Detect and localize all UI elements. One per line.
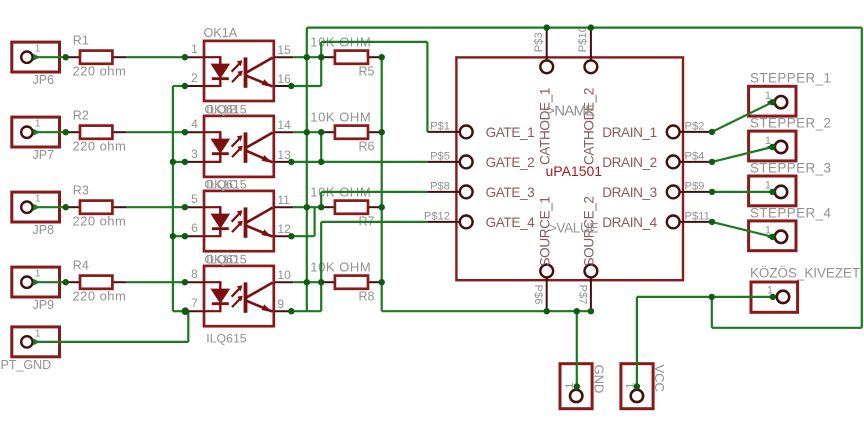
svg-text:9: 9 xyxy=(277,297,284,311)
svg-text:220 ohm: 220 ohm xyxy=(73,213,127,228)
svg-text:VCC: VCC xyxy=(652,365,667,392)
svg-text:1: 1 xyxy=(191,42,198,56)
svg-text:10K OHM: 10K OHM xyxy=(310,109,371,124)
label R7 xyxy=(359,214,375,228)
label NAME placeholder xyxy=(546,102,595,119)
label STEPPER_4 xyxy=(750,205,832,220)
wire JP6 to R1 xyxy=(33,56,65,58)
svg-text:6: 6 xyxy=(191,221,198,235)
connector PT_GND xyxy=(12,327,60,357)
resistor R1 xyxy=(66,51,127,64)
terminal GND xyxy=(560,364,592,409)
label OK1D overlapped with ILQ615 xyxy=(205,252,247,266)
label KOZOS_KIVEZET xyxy=(750,266,860,281)
svg-text:P$9: P$9 xyxy=(685,180,705,192)
pin numbers optocoupler C xyxy=(191,192,291,236)
svg-text:KÖZÖS_KIVEZET: KÖZÖS_KIVEZET xyxy=(750,266,860,281)
svg-text:R8: R8 xyxy=(359,289,375,303)
resistor R5 xyxy=(321,51,382,64)
pin CATHODE_1 (P$3) xyxy=(533,29,553,165)
label STEPPER_3 xyxy=(750,160,831,175)
label GND xyxy=(592,365,607,394)
pin CATHODE_2 (P$10) xyxy=(577,26,597,165)
wire gate 3 net to GATE_3 xyxy=(321,192,427,207)
svg-text:220 ohm: 220 ohm xyxy=(73,63,127,78)
svg-text:GATE_3: GATE_3 xyxy=(486,185,535,200)
svg-text:P$8: P$8 xyxy=(430,180,450,192)
resistor R6 xyxy=(321,126,382,139)
wire R1 to optocoupler LED anode pin xyxy=(126,56,184,58)
wire DRAIN_4 to STEPPER_4 xyxy=(712,222,772,237)
value 220 ohm R2 xyxy=(73,138,127,153)
svg-text:11: 11 xyxy=(277,193,290,207)
svg-text:DRAIN_1: DRAIN_1 xyxy=(602,125,657,140)
wire emitter 2 to GATE_2 xyxy=(291,132,427,162)
pin GATE_2 (P$5) xyxy=(427,150,534,170)
label JP9 xyxy=(33,298,55,312)
optocoupler OK1C xyxy=(185,191,293,251)
wire JP9 to R4 xyxy=(33,281,65,283)
label R1 xyxy=(73,33,89,47)
resistor R3 xyxy=(66,201,127,214)
wire JP7 to R2 xyxy=(33,131,65,133)
pin GATE_4 (P$12) xyxy=(424,210,535,230)
optocoupler OK1D xyxy=(185,266,293,326)
svg-text:STEPPER_2: STEPPER_2 xyxy=(750,116,831,131)
svg-text:JP7: JP7 xyxy=(33,148,55,162)
svg-text:1: 1 xyxy=(35,327,41,339)
label JP7 xyxy=(33,148,55,162)
wire VCC vertical rail to optocoupler collectors xyxy=(306,28,308,312)
svg-text:P$2: P$2 xyxy=(685,120,705,132)
pin DRAIN_3 (P$9) xyxy=(602,180,712,200)
resistor R2 xyxy=(66,126,127,139)
label OK1C overlapped with ILQ615 xyxy=(205,177,247,191)
wire collector row channel 2 xyxy=(293,131,321,133)
pin SOURCE_2 (P$7) xyxy=(576,196,597,310)
wire VCC top rail xyxy=(307,27,862,29)
svg-text:OK1A: OK1A xyxy=(204,26,238,40)
svg-text:GATE_4: GATE_4 xyxy=(486,215,536,230)
svg-text:P$6: P$6 xyxy=(532,285,544,305)
svg-text:R3: R3 xyxy=(73,183,89,197)
wire collector row channel 3 xyxy=(293,206,321,208)
label R2 xyxy=(73,108,89,122)
svg-text:>VALUE: >VALUE xyxy=(549,220,599,235)
wire VCC right edge xyxy=(861,28,863,328)
wire DRAIN_1 to STEPPER_1 xyxy=(712,102,772,132)
svg-text:3: 3 xyxy=(191,147,198,161)
svg-text:15: 15 xyxy=(277,43,291,57)
svg-text:STEPPER_1: STEPPER_1 xyxy=(750,71,831,86)
svg-text:CATHODE_2: CATHODE_2 xyxy=(581,88,596,165)
svg-text:JP6: JP6 xyxy=(33,73,55,87)
label VALUE placeholder xyxy=(549,220,599,235)
svg-text:1: 1 xyxy=(35,268,41,280)
wire emitter 4 up-link xyxy=(291,282,321,311)
wire emitter 1 up-link xyxy=(291,57,321,86)
label R4 xyxy=(73,258,89,272)
svg-text:P$12: P$12 xyxy=(424,210,450,222)
svg-text:ILQ615: ILQ615 xyxy=(206,102,246,116)
pin numbers optocoupler B xyxy=(191,117,291,162)
pin GATE_1 (P$1) xyxy=(427,120,534,140)
pin numbers optocoupler D xyxy=(191,267,291,311)
label STEPPER_1 xyxy=(750,71,831,86)
svg-text:GATE_2: GATE_2 xyxy=(486,155,535,170)
resistor R8 xyxy=(321,276,382,289)
svg-text:STEPPER_4: STEPPER_4 xyxy=(750,205,832,220)
label OK1A xyxy=(204,26,238,40)
connector STEPPER_2 xyxy=(749,131,796,161)
pin GATE_3 (P$8) xyxy=(427,180,534,200)
svg-text:P$7: P$7 xyxy=(576,285,588,305)
svg-text:PT_GND: PT_GND xyxy=(1,358,52,372)
wire PT_GND to cathode bus xyxy=(33,311,188,342)
svg-text:DRAIN_3: DRAIN_3 xyxy=(602,185,657,200)
svg-text:DRAIN_4: DRAIN_4 xyxy=(602,215,657,230)
wire collector row channel 1 xyxy=(293,56,321,58)
connector JP6 xyxy=(12,42,60,72)
wire collector row channel 4 xyxy=(293,281,321,283)
wire DRAIN_2 to STEPPER_2 xyxy=(712,147,772,162)
pin DRAIN_1 (P$2) xyxy=(602,120,712,140)
svg-text:R6: R6 xyxy=(359,139,375,153)
svg-text:1: 1 xyxy=(35,43,41,55)
svg-text:8: 8 xyxy=(191,267,198,281)
svg-text:R1: R1 xyxy=(73,33,89,47)
value uPA1501 xyxy=(546,163,603,179)
resistor R4 xyxy=(66,276,127,289)
pin numbers optocoupler A xyxy=(191,42,291,86)
svg-text:ILQ615: ILQ615 xyxy=(206,332,246,346)
svg-text:220 ohm: 220 ohm xyxy=(73,288,127,303)
value 220 ohm R1 xyxy=(73,63,127,78)
svg-text:ILQ615: ILQ615 xyxy=(206,252,246,266)
svg-text:R4: R4 xyxy=(73,258,89,272)
wire emitter 3 up-link xyxy=(291,207,314,236)
value 10K OHM R8 xyxy=(310,259,371,274)
svg-text:uPA1501: uPA1501 xyxy=(546,163,603,179)
svg-text:10: 10 xyxy=(277,268,291,282)
svg-text:5: 5 xyxy=(191,192,198,206)
label JP8 xyxy=(33,223,55,237)
value 220 ohm R3 xyxy=(73,213,127,228)
svg-text:GATE_1: GATE_1 xyxy=(486,125,535,140)
label R3 xyxy=(73,183,89,197)
svg-text:JP9: JP9 xyxy=(33,298,55,312)
resistor R7 xyxy=(321,201,382,214)
value ILQ615 xyxy=(206,332,246,346)
wire GND drop to GND terminal xyxy=(576,311,578,386)
wire DRAIN_3 to STEPPER_3 xyxy=(712,191,772,193)
svg-text:220 ohm: 220 ohm xyxy=(73,138,127,153)
svg-text:GND: GND xyxy=(592,365,607,394)
label R5 xyxy=(359,64,375,78)
connector STEPPER_1 xyxy=(749,86,796,116)
value 10K OHM R5 xyxy=(310,34,371,49)
svg-text:STEPPER_3: STEPPER_3 xyxy=(750,160,831,175)
connector JP8 xyxy=(12,192,60,222)
label R6 xyxy=(359,139,375,153)
svg-text:JP8: JP8 xyxy=(33,223,55,237)
svg-text:P$3: P$3 xyxy=(533,32,545,52)
svg-text:1: 1 xyxy=(35,118,41,130)
value 10K OHM R6 xyxy=(310,109,371,124)
connector STEPPER_3 xyxy=(749,176,796,206)
wire LED cathode bus xyxy=(173,86,188,311)
svg-text:10K OHM: 10K OHM xyxy=(310,259,371,274)
svg-text:P$1: P$1 xyxy=(430,120,450,132)
svg-text:P$5: P$5 xyxy=(430,150,450,162)
svg-text:4: 4 xyxy=(191,117,198,131)
connector KOZOS_KIVEZET xyxy=(751,282,798,312)
optocoupler OK1A xyxy=(185,41,293,101)
label OK1B overlapped with ILQ615 xyxy=(205,102,247,116)
connector JP9 xyxy=(12,267,60,297)
svg-text:P$4: P$4 xyxy=(685,150,705,162)
label JP6 xyxy=(33,73,55,87)
op-amp/FET-array U1 uPA1501 box xyxy=(456,57,683,280)
label R8 xyxy=(359,289,375,303)
svg-text:14: 14 xyxy=(277,118,291,132)
wire gate 1 net to GATE_1 xyxy=(321,42,427,132)
svg-text:R2: R2 xyxy=(73,108,89,122)
pin DRAIN_2 (P$4) xyxy=(602,150,712,170)
terminal VCC xyxy=(621,364,653,409)
connector JP7 xyxy=(12,117,60,147)
svg-text:1: 1 xyxy=(35,193,41,205)
connector STEPPER_4 xyxy=(749,221,796,251)
wire R3 to optocoupler LED anode pin xyxy=(126,206,184,208)
pin SOURCE_1 (P$6) xyxy=(532,196,553,310)
wire R2 to optocoupler LED anode pin xyxy=(126,131,184,133)
wire GND vertical rail right of resistors xyxy=(381,57,383,311)
label STEPPER_2 xyxy=(750,116,831,131)
wire VCC to KOZOS and VCC terminal xyxy=(637,297,773,387)
value 10K OHM R7 xyxy=(310,184,371,199)
svg-text:2: 2 xyxy=(191,71,198,85)
svg-text:R5: R5 xyxy=(359,64,375,78)
pin DRAIN_4 (P$11) xyxy=(602,210,712,230)
svg-text:CATHODE_1: CATHODE_1 xyxy=(538,88,553,165)
svg-text:DRAIN_2: DRAIN_2 xyxy=(602,155,657,170)
wire R4 to optocoupler LED anode pin xyxy=(126,281,184,283)
svg-text:P$11: P$11 xyxy=(685,210,710,222)
svg-text:ILQ615: ILQ615 xyxy=(206,177,246,191)
wire GND horizontal to source pins xyxy=(382,310,591,312)
wire gate 4 net to GATE_4 xyxy=(321,222,427,282)
optocoupler OK1B xyxy=(185,116,293,177)
label PT_GND xyxy=(1,358,52,372)
value 220 ohm R4 xyxy=(73,288,127,303)
wire JP8 to R3 xyxy=(33,206,65,208)
svg-text:>NAME: >NAME xyxy=(546,102,595,119)
svg-text:P$10: P$10 xyxy=(577,26,589,52)
wire VCC bottom rail xyxy=(712,297,862,328)
label VCC xyxy=(652,365,667,392)
svg-text:7: 7 xyxy=(191,296,198,310)
